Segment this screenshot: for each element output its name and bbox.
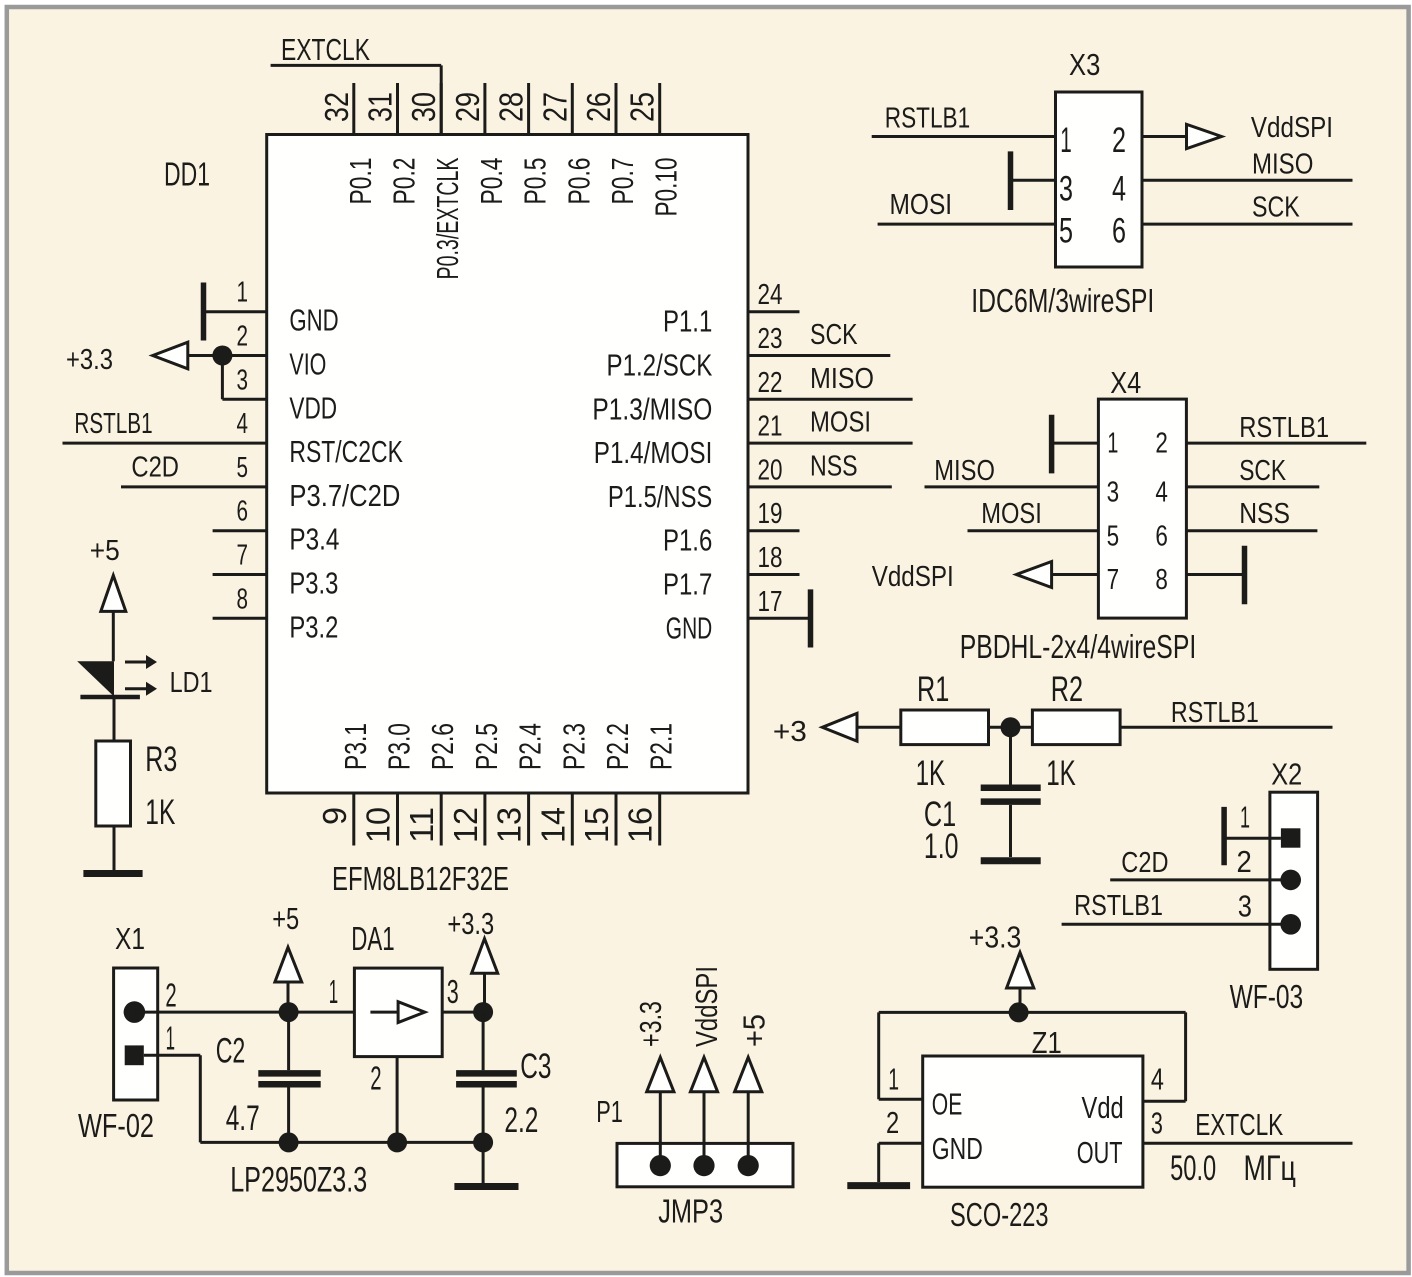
svg-text:R1: R1: [917, 670, 949, 709]
wire DA1 pin 2 to rail: [396, 1057, 399, 1143]
svg-text:P1.5/NSS: P1.5/NSS: [608, 479, 712, 514]
ground symbol at DD1 pin 1: [204, 283, 267, 341]
svg-text:2: 2: [237, 321, 249, 353]
power +3.3 arrow above Z1: [969, 920, 1034, 1013]
oscillator Z1 SCO-223 body: [923, 1056, 1143, 1187]
svg-text:2: 2: [1112, 121, 1126, 160]
svg-text:P3.3: P3.3: [289, 566, 338, 601]
svg-text:P1.6: P1.6: [663, 523, 712, 558]
svg-text:SCK: SCK: [810, 319, 858, 351]
DD1 right pin 24 number and label P1.1: [663, 279, 783, 339]
DD1 top pin 26 (P0.7) stub: [580, 83, 640, 205]
svg-text:P3.7/C2D: P3.7/C2D: [289, 478, 400, 513]
svg-text:NSS: NSS: [1239, 498, 1290, 530]
DD1 bottom pin 16 (P2.1) stub: [622, 723, 679, 846]
svg-text:C2D: C2D: [1121, 847, 1168, 879]
svg-text:1: 1: [1060, 121, 1072, 160]
svg-text:X1: X1: [115, 921, 145, 956]
wire LD1 to R3: [113, 697, 116, 741]
DD1 right pin 17 number and label GND: [666, 586, 783, 646]
net RSTLB1 wire from X4 pin 2: [1186, 412, 1366, 444]
DD1 right pin 20 wire: [748, 450, 892, 487]
DD1 right pin 19 wire: [748, 529, 800, 532]
svg-text:VddSPI: VddSPI: [872, 561, 954, 593]
svg-text:3: 3: [1059, 170, 1073, 209]
net RSTLB1 wire into DD1 pin 4: [63, 408, 267, 443]
svg-text:29: 29: [449, 92, 486, 122]
svg-text:X4: X4: [1110, 365, 1141, 400]
junction node C2 bottom: [279, 1132, 299, 1152]
svg-text:27: 27: [536, 92, 573, 122]
svg-text:R3: R3: [145, 740, 177, 779]
svg-text:MISO: MISO: [810, 363, 874, 395]
svg-text:Vdd: Vdd: [1082, 1090, 1124, 1125]
svg-text:C2: C2: [216, 1031, 246, 1070]
DD1 bottom pin 12 (P2.5) stub: [447, 723, 504, 846]
svg-text:P1.1: P1.1: [663, 304, 712, 339]
P1 pin 2 pad, wire, power arrow VddSPI: [689, 966, 724, 1176]
svg-text:30: 30: [405, 92, 442, 122]
X3 pin numbers 1-6: [1059, 121, 1126, 251]
X1 pin 1 square pad: [125, 1045, 144, 1065]
X1 pin 2 round pad: [124, 1001, 146, 1023]
svg-text:RSTLB1: RSTLB1: [74, 408, 152, 440]
svg-text:2: 2: [165, 977, 176, 1014]
svg-text:3: 3: [1238, 889, 1252, 924]
svg-text:+3.3: +3.3: [633, 1001, 668, 1047]
ground symbol below C3: [454, 1142, 518, 1186]
net MISO wire from X3 pin 4: [1142, 148, 1353, 180]
svg-text:RSTLB1: RSTLB1: [1074, 890, 1163, 922]
svg-text:4: 4: [1155, 477, 1168, 509]
svg-text:MISO: MISO: [934, 455, 995, 487]
capacitor C1 1.0: [924, 727, 1041, 866]
svg-text:P0.10: P0.10: [649, 158, 684, 217]
P1 pin 3 pad, wire, power arrow +5: [735, 1014, 772, 1176]
svg-text:P0.3/EXTCLK: P0.3/EXTCLK: [430, 157, 465, 279]
junction node R1/R2/C1: [1001, 717, 1021, 737]
DD1 left pin 1 number and label GND: [237, 277, 339, 338]
svg-text:2: 2: [370, 1060, 381, 1097]
svg-text:P0.2: P0.2: [387, 158, 422, 205]
DD1 right pin 22 number and label P1.3/MISO: [592, 367, 782, 427]
Z1 frequency label 50.0 MHz: [1170, 1149, 1296, 1188]
svg-text:P2.3: P2.3: [556, 723, 591, 770]
svg-text:P2.1: P2.1: [644, 723, 679, 770]
svg-text:31: 31: [362, 92, 399, 122]
svg-text:7: 7: [1107, 564, 1120, 596]
svg-text:P0.7: P0.7: [605, 158, 640, 205]
svg-text:SCK: SCK: [1239, 455, 1286, 487]
wire node to Z1 pin 1 (OE): [879, 1012, 1019, 1099]
DD1 left pin 7 number and label P3.3: [237, 540, 339, 601]
svg-text:MOSI: MOSI: [810, 407, 871, 439]
DD1 top pin 28 (P0.5) stub: [493, 83, 553, 205]
svg-text:SCO-223: SCO-223: [950, 1196, 1049, 1233]
DD1 bottom pin 10 (P3.0) stub: [360, 723, 417, 846]
DD1 pin 7 wire: [213, 573, 267, 576]
DD1 bottom pin 14 (P2.3) stub: [534, 723, 591, 846]
DD1 left pin 6 number and label P3.4: [237, 496, 340, 557]
svg-text:RSTLB1: RSTLB1: [1239, 412, 1329, 444]
svg-text:LP2950Z3.3: LP2950Z3.3: [230, 1160, 367, 1199]
svg-text:P3.4: P3.4: [289, 522, 339, 557]
junction node above Z1: [1009, 1002, 1029, 1022]
svg-text:1: 1: [888, 1061, 899, 1096]
svg-text:32: 32: [318, 92, 355, 122]
svg-text:VDD: VDD: [289, 390, 337, 425]
svg-text:C2D: C2D: [131, 452, 179, 484]
DD1 right pin 21 wire: [748, 407, 913, 444]
jumper header P1 JMP3 body: [617, 1143, 793, 1186]
DD1 bottom pin 13 (P2.4) stub: [491, 723, 548, 846]
wire X1 pin 1 to ground rail: [144, 1055, 201, 1142]
svg-text:10: 10: [360, 807, 397, 843]
svg-text:4: 4: [1151, 1061, 1164, 1096]
DD1 bottom pin 9 (P3.1) stub: [316, 723, 373, 846]
voltage regulator DA1 LP2950Z3.3 body: [354, 968, 442, 1057]
svg-text:P0.1: P0.1: [343, 158, 378, 205]
svg-text:21: 21: [758, 411, 783, 443]
svg-text:MOSI: MOSI: [890, 189, 953, 221]
svg-text:25: 25: [624, 92, 661, 122]
svg-text:RSTLB1: RSTLB1: [885, 102, 970, 134]
DD1 top pin 32 (P0.1) stub: [318, 83, 378, 205]
svg-text:P1.2/SCK: P1.2/SCK: [607, 348, 713, 383]
DD1 top pin 29 (P0.4) stub: [449, 83, 509, 205]
svg-text:EXTCLK: EXTCLK: [281, 32, 370, 67]
ground symbol at X4 pin 1: [1052, 415, 1099, 474]
DD1 pin 6 wire: [213, 529, 267, 532]
svg-text:VddSPI: VddSPI: [1251, 112, 1333, 144]
svg-text:2: 2: [886, 1105, 899, 1140]
DD1 right pin 24 wire: [748, 310, 800, 313]
DD1 left pin 3 number and label VDD: [237, 364, 338, 425]
svg-text:3: 3: [1151, 1106, 1163, 1141]
svg-text:2.2: 2.2: [504, 1101, 538, 1140]
svg-text:+3.3: +3.3: [66, 344, 113, 376]
ground symbol at X2 pin 1: [1224, 807, 1281, 865]
ground symbol at X3 pin 3: [1011, 151, 1056, 210]
svg-text:P1: P1: [596, 1094, 623, 1129]
svg-text:P0.6: P0.6: [561, 158, 596, 205]
connector X2 WF-03 body: [1270, 792, 1318, 969]
svg-text:1: 1: [166, 1020, 175, 1057]
power VddSPI arrow out of X3 pin 2: [1142, 112, 1333, 149]
svg-text:GND: GND: [666, 610, 713, 645]
svg-text:SCK: SCK: [1252, 191, 1300, 223]
svg-text:+5: +5: [736, 1014, 771, 1047]
svg-text:GND: GND: [932, 1131, 983, 1166]
DD1 right pin 21 number and label P1.4/MOSI: [594, 411, 783, 471]
net MOSI wire into X3 pin 5: [878, 189, 1056, 224]
svg-text:OE: OE: [932, 1087, 963, 1122]
svg-text:GND: GND: [289, 303, 338, 338]
DD1 left pin 8 number and label P3.2: [237, 583, 339, 644]
ground symbol at X4 pin 8: [1186, 546, 1244, 605]
svg-text:RST/C2CK: RST/C2CK: [289, 434, 403, 469]
svg-text:+3.3: +3.3: [969, 920, 1022, 955]
svg-text:P1.7: P1.7: [663, 567, 712, 602]
svg-text:3: 3: [447, 973, 459, 1010]
X2 pin 2 round pad: [1280, 870, 1301, 891]
power +3.3 arrow at C3 node: [447, 906, 497, 1012]
svg-text:9: 9: [316, 807, 353, 825]
svg-text:11: 11: [403, 807, 440, 843]
svg-text:16: 16: [622, 807, 659, 843]
svg-text:P3.1: P3.1: [338, 723, 373, 770]
DD1 bottom pin 11 (P2.6) stub: [403, 723, 460, 846]
svg-text:JMP3: JMP3: [658, 1193, 723, 1230]
capacitor C3 2.2: [456, 1012, 551, 1142]
wire DA1 pin 3 to C3 node: [442, 1011, 483, 1014]
svg-text:3: 3: [237, 364, 249, 396]
svg-text:DA1: DA1: [351, 920, 394, 957]
svg-text:17: 17: [758, 586, 783, 618]
svg-text:LD1: LD1: [170, 667, 213, 699]
svg-text:1: 1: [1107, 428, 1118, 460]
svg-text:7: 7: [237, 540, 249, 572]
P1 pin 1 pad, wire, power arrow +3.3: [633, 1001, 674, 1176]
DD1 left pin 5 number and label P3.7/C2D: [237, 452, 401, 513]
svg-text:18: 18: [758, 542, 783, 574]
svg-text:NSS: NSS: [810, 450, 858, 482]
net RSTLB1 wire into X3 pin 1: [872, 102, 1056, 136]
DD1 right pin 23 wire: [748, 319, 890, 356]
svg-text:1.0: 1.0: [924, 827, 959, 866]
svg-text:P2.4: P2.4: [513, 723, 548, 770]
net SCK wire from X4 pin 4: [1186, 455, 1319, 487]
power +3 arrow into R1: [773, 713, 901, 748]
svg-text:WF-02: WF-02: [78, 1107, 154, 1144]
svg-text:1K: 1K: [916, 754, 946, 793]
wire Z1 pin 2 (GND) to ground: [879, 1143, 923, 1182]
svg-text:RSTLB1: RSTLB1: [1171, 697, 1259, 729]
svg-text:VIO: VIO: [289, 347, 326, 382]
svg-text:6: 6: [237, 496, 249, 528]
svg-text:R2: R2: [1051, 670, 1083, 709]
svg-text:+3.3: +3.3: [447, 906, 494, 941]
svg-text:P3.0: P3.0: [382, 723, 417, 770]
ground symbol below C1: [981, 857, 1041, 864]
net C2D wire into X2 pin 2: [1110, 847, 1291, 880]
resistor R3 1K: [96, 740, 178, 832]
wire R1 to R2: [989, 726, 1033, 729]
power +3.3 arrow into DD1 pin 2 (VIO): [66, 342, 267, 376]
connector X1 WF-02 body: [114, 968, 158, 1100]
IC DD1 body EFM8LB12F32E: [267, 135, 748, 794]
ground symbol below R3: [83, 870, 142, 877]
svg-text:X2: X2: [1271, 757, 1302, 792]
svg-text:15: 15: [578, 807, 615, 843]
LED LD1: [77, 655, 212, 699]
power VddSPI arrow out of X4 pin 7: [872, 561, 1099, 593]
svg-text:+3: +3: [773, 716, 807, 748]
svg-text:5: 5: [1059, 212, 1073, 251]
X4 pin numbers 1-8: [1107, 428, 1168, 596]
wire node to DD1 pin 3 (VDD): [222, 356, 266, 400]
svg-text:1: 1: [1240, 800, 1250, 835]
svg-text:5: 5: [1107, 521, 1120, 553]
capacitor C2 4.7: [216, 1012, 321, 1142]
svg-text:23: 23: [758, 323, 783, 355]
DD1 pin 8 wire: [213, 617, 267, 620]
net C2D wire into DD1 pin 5: [121, 452, 267, 487]
svg-text:1K: 1K: [1046, 754, 1076, 793]
DD1 bottom pin 15 (P2.2) stub: [578, 723, 635, 846]
svg-text:P2.2: P2.2: [600, 723, 635, 770]
svg-text:22: 22: [758, 367, 783, 399]
net MISO wire into X4 pin 3: [925, 455, 1099, 487]
svg-text:P1.4/MOSI: P1.4/MOSI: [594, 435, 713, 470]
DD1 right pin 20 number and label P1.5/NSS: [608, 454, 783, 514]
resistor R2 1K: [1032, 670, 1120, 793]
svg-text:28: 28: [493, 92, 530, 122]
junction node at pin 2: [212, 346, 232, 366]
DD1 left pin 2 number and label VIO: [237, 321, 327, 382]
wire X1 pin 2 to DA1 pin 1 (+5 rail): [134, 1011, 354, 1014]
svg-text:24: 24: [758, 279, 783, 311]
DD1 right pin 17 wire: [748, 617, 811, 620]
svg-text:2: 2: [1237, 844, 1252, 879]
svg-text:26: 26: [580, 92, 617, 122]
DD1 right pin 22 wire: [748, 363, 913, 400]
junction node C3 top: [473, 1002, 493, 1022]
svg-text:MOSI: MOSI: [981, 498, 1042, 530]
svg-text:МГц: МГц: [1244, 1149, 1296, 1188]
svg-text:WF-03: WF-03: [1230, 978, 1304, 1015]
junction node C2 top: [279, 1002, 299, 1022]
ground symbol at DD1 pin 17: [808, 589, 814, 647]
wire R3 to ground: [113, 826, 116, 871]
DD1 top pin 27 (P0.6) stub: [536, 83, 596, 205]
X2 pin 1 square pad: [1281, 828, 1301, 847]
svg-text:C3: C3: [520, 1047, 551, 1086]
net NSS wire from X4 pin 6: [1186, 498, 1317, 531]
svg-text:4.7: 4.7: [226, 1099, 260, 1138]
DD1 right pin 23 number and label P1.2/SCK: [607, 323, 783, 383]
svg-text:Z1: Z1: [1032, 1025, 1062, 1060]
junction node C3 bottom: [473, 1132, 493, 1152]
DD1 left pin 4 number and label RST/C2CK: [237, 408, 404, 469]
DD1 right pin 19 number and label P1.6: [663, 498, 783, 558]
svg-text:50.0: 50.0: [1170, 1149, 1216, 1188]
DA1 internal arrow symbol: [370, 1002, 424, 1023]
wire node to Z1 pin 4 (Vdd): [1019, 1012, 1186, 1101]
svg-text:P0.5: P0.5: [518, 158, 553, 205]
svg-text:P0.4: P0.4: [474, 158, 509, 205]
svg-text:PBDHL-2x4/4wireSPI: PBDHL-2x4/4wireSPI: [960, 628, 1196, 665]
svg-text:+5: +5: [272, 901, 299, 936]
DD1 right pin 18 number and label P1.7: [663, 542, 783, 602]
svg-text:14: 14: [534, 807, 571, 843]
power +5 arrow at C2 node: [272, 901, 302, 1012]
svg-text:13: 13: [491, 807, 528, 843]
svg-text:DD1: DD1: [164, 156, 210, 193]
power +5 arrow above LD1: [90, 535, 126, 661]
DD1 top pin 31 (P0.2) stub: [362, 83, 422, 205]
svg-text:6: 6: [1155, 521, 1168, 553]
svg-text:1: 1: [237, 277, 249, 309]
svg-text:P2.5: P2.5: [469, 723, 504, 770]
svg-text:8: 8: [237, 583, 249, 615]
connector X3 IDC6M/3wireSPI body: [1056, 92, 1143, 267]
net SCK wire from X3 pin 6: [1142, 191, 1353, 224]
svg-text:4: 4: [1112, 170, 1126, 209]
DD1 right pin 18 wire: [748, 573, 800, 576]
svg-text:19: 19: [758, 498, 783, 530]
DD1 top pin 25 (P0.10) stub: [624, 83, 684, 217]
resistor R1 1K: [901, 670, 989, 793]
X2 pin 3 round pad: [1280, 914, 1301, 935]
svg-text:P2.6: P2.6: [425, 723, 460, 770]
net MOSI wire into X4 pin 5: [968, 498, 1099, 531]
svg-text:IDC6M/3wireSPI: IDC6M/3wireSPI: [971, 282, 1154, 319]
svg-text:VddSPI: VddSPI: [689, 966, 724, 1047]
svg-text:+5: +5: [90, 535, 120, 567]
svg-text:P3.2: P3.2: [289, 609, 338, 644]
svg-text:OUT: OUT: [1077, 1135, 1123, 1170]
svg-text:EXTCLK: EXTCLK: [1195, 1107, 1283, 1142]
net EXTCLK wire from Z1 pin 3 (OUT): [1143, 1107, 1353, 1143]
ground symbol at Z1 pin 2: [847, 1182, 910, 1189]
svg-text:X3: X3: [1069, 47, 1100, 82]
svg-text:3: 3: [1107, 477, 1120, 509]
svg-text:4: 4: [237, 408, 249, 440]
svg-text:8: 8: [1155, 564, 1168, 596]
svg-text:1K: 1K: [145, 793, 175, 832]
svg-text:12: 12: [447, 807, 484, 843]
svg-text:2: 2: [1155, 428, 1168, 460]
DD1 top pin 30 (P0.3/EXTCLK) stub: [405, 83, 465, 280]
svg-text:EFM8LB12F32E: EFM8LB12F32E: [332, 860, 509, 897]
ground rail wire under C2/DA1/C3: [200, 1141, 483, 1144]
junction node DA1 pin 2: [387, 1132, 407, 1152]
net RSTLB1 wire into X2 pin 3: [1062, 890, 1291, 924]
connector X4 PBDHL-2x4/4wireSPI body: [1098, 399, 1186, 618]
svg-text:6: 6: [1112, 212, 1126, 251]
svg-text:1: 1: [329, 973, 338, 1010]
svg-text:P1.3/MISO: P1.3/MISO: [592, 391, 712, 426]
svg-text:MISO: MISO: [1252, 148, 1313, 180]
svg-text:20: 20: [758, 454, 783, 486]
svg-text:5: 5: [237, 452, 249, 484]
net RSTLB1 wire from R2: [1120, 697, 1332, 729]
